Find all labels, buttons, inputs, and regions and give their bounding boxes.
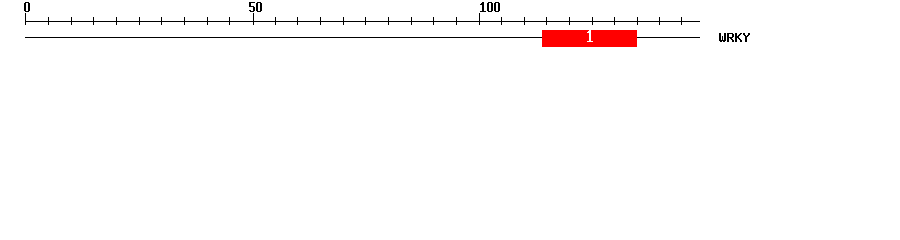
ruler minor tick — [139, 17, 140, 25]
ruler major tick 100 — [479, 13, 480, 25]
ruler minor tick — [524, 17, 525, 25]
ruler minor tick — [433, 17, 434, 25]
ruler minor tick — [116, 17, 117, 25]
background — [0, 0, 900, 58]
ruler minor tick — [365, 17, 366, 25]
ruler axis line — [25, 21, 700, 22]
ruler minor tick — [48, 17, 49, 25]
ruler major tick 0 — [25, 13, 26, 25]
ruler minor tick — [297, 17, 298, 25]
ruler minor tick — [614, 17, 615, 25]
ruler minor tick — [71, 17, 72, 25]
ruler minor tick — [275, 17, 276, 25]
ruler minor tick — [184, 17, 185, 25]
domain box 1 (WRKY) — [542, 30, 637, 47]
sequence line — [25, 37, 700, 38]
ruler minor tick — [681, 17, 682, 25]
ruler label 100 — [480, 2, 500, 12]
ruler minor tick — [161, 17, 162, 25]
ruler minor tick — [569, 17, 570, 25]
ruler minor tick — [501, 17, 502, 25]
ruler minor tick — [207, 17, 208, 25]
ruler minor tick — [637, 17, 638, 25]
ruler minor tick — [456, 17, 457, 25]
protein domain diagram canvas — [0, 0, 900, 58]
ruler label 50 — [249, 2, 262, 12]
ruler minor tick — [343, 17, 344, 25]
ruler minor tick — [411, 17, 412, 25]
domain name WRKY — [719, 33, 750, 42]
ruler minor tick — [93, 17, 94, 25]
ruler minor tick — [320, 17, 321, 25]
ruler minor tick — [659, 17, 660, 25]
ruler minor tick — [229, 17, 230, 25]
ruler minor tick — [592, 17, 593, 25]
ruler major tick 50 — [253, 13, 254, 25]
ruler minor tick — [388, 17, 389, 25]
ruler minor tick — [546, 17, 547, 25]
domain number 1 — [587, 30, 593, 42]
ruler label 0 — [24, 2, 30, 12]
